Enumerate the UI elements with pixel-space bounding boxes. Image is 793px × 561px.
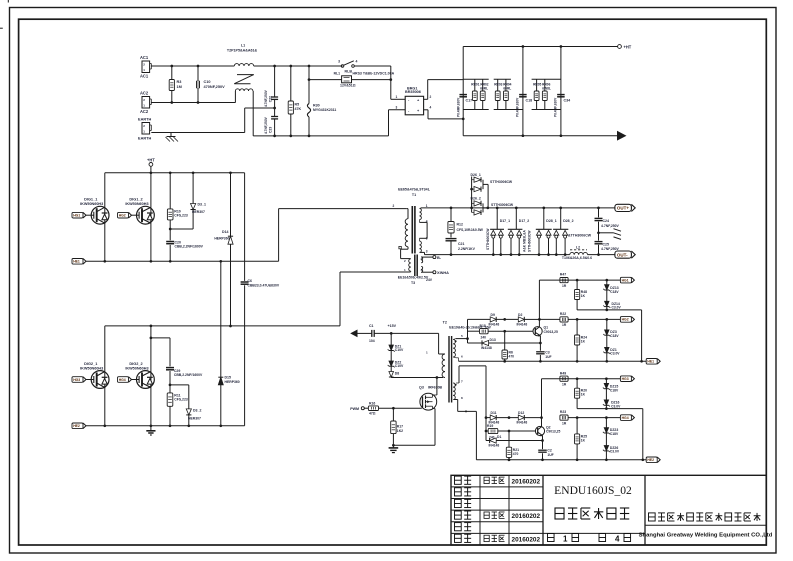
- svg-text:L1: L1: [241, 44, 245, 48]
- svg-text:D14: D14: [222, 230, 228, 234]
- svg-text:3: 3: [396, 105, 398, 109]
- connector HE2: [72, 423, 245, 429]
- svg-text:4.7NF,250V: 4.7NF,250V: [264, 89, 268, 107]
- wire HT top rail: [463, 46, 617, 48]
- capacitor C21: [446, 233, 476, 255]
- svg-text:R22: R22: [560, 312, 566, 316]
- diode D3_1: [170, 173, 206, 229]
- svg-text:D17_2: D17_2: [519, 219, 529, 223]
- svg-text:CBB,2.2NF/1600V: CBB,2.2NF/1600V: [175, 245, 204, 249]
- svg-text:47Ω: 47Ω: [369, 411, 376, 415]
- resistor pair RR01 RR02: [463, 79, 489, 109]
- svg-text:DIG1_2: DIG1_2: [129, 198, 142, 202]
- diode D11: [486, 411, 518, 424]
- wire AC2 to choke: [151, 102, 235, 104]
- svg-text:+HT: +HT: [147, 158, 155, 163]
- wire DIG1_2 emitter: [150, 223, 152, 261]
- diode group D27_2: [508, 208, 529, 255]
- transformer T3 label: [398, 275, 429, 284]
- wire Q3 drain: [433, 378, 437, 396]
- svg-text:STTH3006CW: STTH3006CW: [491, 203, 514, 207]
- diode pair D26_2: [471, 197, 514, 216]
- svg-text:470: 470: [513, 452, 519, 456]
- svg-text:T106&26A,6.5&0.6: T106&26A,6.5&0.6: [562, 256, 592, 260]
- svg-text:1K2: 1K2: [397, 429, 403, 433]
- svg-text:R19: R19: [487, 424, 493, 428]
- svg-text:C10V: C10V: [395, 364, 404, 368]
- svg-text:AC2: AC2: [140, 91, 149, 96]
- svg-text:47K: 47K: [295, 107, 302, 111]
- wire AC1 to choke: [151, 65, 234, 67]
- wire DIG1_1 collector: [104, 173, 106, 208]
- svg-text:DIG1_1: DIG1_1: [84, 198, 98, 202]
- transformer T1 label: [398, 188, 431, 197]
- resistor R49: [560, 371, 568, 386]
- svg-text:IKW50N60H3: IKW50N60H3: [80, 202, 103, 206]
- resistor R48: [575, 280, 588, 310]
- svg-text:HG2: HG2: [119, 214, 126, 218]
- resistor pair RR05 RR06: [532, 79, 561, 109]
- wire Q1 emitter: [539, 336, 541, 343]
- wire primary riser: [279, 209, 407, 262]
- wire bottom rail left: [253, 135, 388, 137]
- svg-text:C18V: C18V: [610, 389, 619, 393]
- wire DIG2_1 emitter: [104, 387, 106, 425]
- svg-text:470: 470: [509, 355, 515, 359]
- wire ch2 left vertical: [485, 416, 488, 440]
- svg-text:+15V: +15V: [388, 324, 397, 328]
- resistor R12: [448, 208, 484, 233]
- corner mark: [7, 0, 9, 3]
- wire ch1 rail: [456, 358, 646, 363]
- zener DZ3: [603, 319, 619, 338]
- capacitor C24: [595, 208, 620, 234]
- svg-text:1R: 1R: [562, 284, 567, 288]
- resistor R24: [575, 319, 588, 361]
- svg-text:C3.0V: C3.0V: [611, 404, 621, 408]
- wire ch1 left vertical: [467, 319, 469, 343]
- capacitor C25: [595, 233, 620, 255]
- svg-text:1: 1: [143, 103, 145, 107]
- capacitor C18: [516, 95, 533, 117]
- svg-text:R12: R12: [457, 223, 463, 227]
- wire bridge pin2: [424, 80, 464, 100]
- svg-text:4.7NF,250V: 4.7NF,250V: [601, 224, 620, 228]
- svg-text:C18V: C18V: [610, 290, 619, 294]
- svg-text:T2P1P5&A&A61&: T2P1P5&A&A61&: [227, 49, 258, 53]
- resistor R3: [169, 65, 182, 104]
- wire bridge pin4: [424, 105, 465, 120]
- svg-text:AC1: AC1: [140, 55, 149, 60]
- svg-text:RLB: RLB: [345, 70, 353, 74]
- wire ch1 row2 right: [568, 318, 620, 321]
- diode D12: [517, 411, 542, 424]
- svg-text:12V&51Ω: 12V&51Ω: [340, 84, 356, 88]
- svg-text:HG2: HG2: [622, 318, 629, 322]
- capacitor C10: [197, 65, 225, 104]
- capacitor C17: [457, 95, 473, 117]
- svg-text:1: 1: [143, 68, 145, 72]
- svg-text:D26_1: D26_1: [471, 173, 481, 177]
- svg-text:1UF: 1UF: [547, 453, 553, 457]
- svg-text:Shanghai Greatway Welding Equi: Shanghai Greatway Welding Equipment CO.,…: [639, 533, 773, 539]
- svg-text:C24: C24: [603, 219, 609, 223]
- resistor R19: [486, 424, 536, 439]
- svg-text:D8: D8: [395, 372, 399, 376]
- connector flag HE1: [646, 359, 657, 365]
- svg-text:P0.4MF,630V: P0.4MF,630V: [516, 97, 520, 117]
- capacitor C1: [358, 324, 392, 343]
- svg-text:L2: L2: [576, 246, 580, 250]
- wire snubber left vertical: [462, 47, 464, 136]
- transformer T1 core: [412, 206, 415, 254]
- relay contact RLB: [338, 60, 391, 74]
- svg-text:Q3: Q3: [419, 385, 424, 389]
- svg-text:1R: 1R: [562, 382, 567, 386]
- svg-text:IKW50N60H3: IKW50N60H3: [125, 367, 148, 371]
- zener DZ13: [603, 280, 619, 294]
- transistor DIG1_1: [72, 198, 109, 224]
- svg-text:6: 6: [461, 354, 463, 358]
- capacitor C34: [554, 95, 571, 117]
- arrow output: [617, 131, 627, 141]
- resistor R18: [468, 324, 534, 340]
- svg-text:C10: C10: [204, 80, 211, 84]
- wire ch1 row1: [539, 279, 620, 282]
- svg-text:PWM: PWM: [350, 407, 359, 411]
- svg-text:4: 4: [615, 535, 620, 544]
- capacitor C2: [538, 441, 553, 460]
- svg-text:C18: C18: [526, 99, 533, 103]
- svg-text:4: 4: [356, 60, 358, 64]
- svg-text:C25: C25: [603, 243, 609, 247]
- resistor R21: [506, 431, 519, 461]
- svg-text:R3: R3: [177, 80, 182, 84]
- wire switch drop: [391, 66, 405, 99]
- ground earth symbol: [166, 133, 179, 142]
- wire Q2 collector: [540, 379, 543, 427]
- svg-text:B-: B-: [437, 256, 442, 260]
- wire ch1 rowB: [577, 309, 642, 362]
- svg-text:D28_2: D28_2: [563, 219, 573, 223]
- svg-text:1K: 1K: [581, 294, 586, 298]
- resistor R20: [575, 379, 588, 409]
- title row label 审核: [455, 511, 472, 519]
- svg-text:2: 2: [143, 63, 145, 67]
- resistor R17: [391, 408, 403, 445]
- resistor R6: [502, 331, 514, 362]
- title drawing name 主回路原理图: [555, 508, 629, 519]
- svg-text:C23: C23: [269, 127, 273, 133]
- svg-text:HG3: HG3: [73, 378, 80, 382]
- svg-text:STTH3006CW: STTH3006CW: [490, 180, 513, 184]
- wire top rail HT: [105, 171, 245, 174]
- svg-text:&TTH3006CW: &TTH3006CW: [568, 234, 592, 238]
- svg-text:A&K MB3L&A: A&K MB3L&A: [523, 229, 527, 252]
- svg-text:C9013,25: C9013,25: [544, 330, 559, 334]
- capacitor C3: [536, 343, 551, 361]
- svg-text:BR35006: BR35006: [405, 90, 421, 94]
- connector flag HE2: [646, 457, 657, 463]
- zener DZ1: [388, 333, 404, 352]
- svg-text:R23: R23: [560, 410, 566, 414]
- svg-text:C22: C22: [269, 96, 273, 102]
- svg-text:AC1: AC1: [140, 74, 149, 79]
- svg-text:C9013,25: C9013,25: [546, 430, 561, 434]
- resistor R22: [539, 312, 568, 327]
- svg-text:HG4: HG4: [119, 378, 126, 382]
- svg-text:DIG2_2: DIG2_2: [129, 362, 142, 366]
- resistor R25: [575, 418, 588, 460]
- svg-text:3: 3: [338, 60, 340, 64]
- transistor Q3: [419, 385, 443, 410]
- zener DZ4: [603, 335, 620, 361]
- wire bridge pin3: [389, 105, 406, 136]
- svg-text:D3_1: D3_1: [198, 203, 206, 207]
- diode D14: [214, 173, 233, 328]
- transistor DIG1_2: [118, 198, 155, 224]
- svg-text:1: 1: [426, 351, 428, 355]
- svg-text:240: 240: [481, 336, 487, 340]
- svg-text:HERP360: HERP360: [214, 237, 229, 241]
- svg-text:104: 104: [369, 339, 375, 343]
- zener DZ23: [603, 418, 619, 436]
- svg-text:CFS,10RJ&0.5W: CFS,10RJ&0.5W: [457, 228, 484, 232]
- connector flag HG4: [620, 415, 631, 421]
- svg-text:4: 4: [430, 105, 432, 109]
- connector OUT+: [615, 204, 635, 211]
- svg-text:RL1: RL1: [334, 72, 341, 76]
- title page 第 1 页 共 4 页: [548, 534, 631, 544]
- svg-text:HE1: HE1: [73, 260, 80, 264]
- svg-text:D28_1: D28_1: [546, 219, 556, 223]
- svg-text:R16: R16: [369, 401, 375, 405]
- svg-text:C2: C2: [547, 449, 551, 453]
- wire ch2 rowB: [577, 407, 643, 460]
- diode D15: [218, 261, 239, 427]
- svg-text:R18: R18: [480, 324, 486, 328]
- resistor pair RR03 RR04: [494, 79, 523, 109]
- arrow 15V input: [350, 330, 357, 338]
- wire T2 pin7 to ch2: [456, 366, 486, 418]
- svg-text:-: -: [408, 109, 410, 113]
- svg-text:C1: C1: [369, 324, 374, 328]
- connector HE1: [72, 259, 279, 265]
- svg-text:R49: R49: [560, 371, 566, 375]
- svg-text:HER307: HER307: [192, 210, 205, 214]
- svg-text:60RL: 60RL: [480, 87, 488, 91]
- svg-text:CFS,223: CFS,223: [174, 214, 188, 218]
- svg-text:D17_1: D17_1: [500, 219, 510, 223]
- svg-text:1R: 1R: [562, 421, 567, 425]
- svg-text:T2: T2: [443, 320, 447, 324]
- svg-text:D2: D2: [518, 313, 522, 317]
- svg-text:60RL: 60RL: [503, 87, 511, 91]
- connector flag HG1: [620, 277, 631, 283]
- svg-text:8: 8: [461, 396, 463, 400]
- wire EARTH: [151, 132, 244, 134]
- title company 上海广为焊接设备有限公司: [649, 513, 761, 521]
- bridge rectifier BRG1: [405, 86, 424, 115]
- svg-text:D12: D12: [518, 411, 524, 415]
- svg-text:T3: T3: [411, 281, 415, 285]
- wire ch1 row2 left: [468, 318, 491, 320]
- svg-text:2.2NF/1KV: 2.2NF/1KV: [458, 247, 476, 251]
- svg-text:2: 2: [143, 124, 145, 128]
- svg-text:4.7NF,250V: 4.7NF,250V: [601, 247, 620, 251]
- title row label 校对: [455, 499, 472, 507]
- svg-text:C21: C21: [458, 242, 464, 246]
- resistor R16: [368, 401, 421, 415]
- choke L1: [227, 44, 258, 136]
- svg-text:IN4148: IN4148: [489, 444, 500, 448]
- wire secondary top rail: [421, 207, 615, 210]
- diode group D28_2: [553, 208, 574, 255]
- capacitor C6: [241, 173, 280, 426]
- wire lower collector rail: [105, 325, 340, 328]
- chassis ground: [599, 229, 622, 240]
- wire T2 pin8 to rail: [454, 400, 476, 460]
- svg-text:CBB,2.2NF/1600V: CBB,2.2NF/1600V: [174, 373, 203, 377]
- svg-text:1K: 1K: [581, 393, 586, 397]
- diode D9: [489, 313, 519, 326]
- svg-text:C34: C34: [564, 99, 571, 103]
- corner mark left: [0, 27, 3, 29]
- svg-text:OUT+: OUT+: [617, 206, 629, 211]
- connector AC2: [140, 91, 151, 115]
- zener DZ16: [603, 389, 621, 409]
- net +15V: [388, 324, 439, 335]
- svg-text:7: 7: [461, 379, 463, 383]
- svg-text:4.7NF,250V: 4.7NF,250V: [264, 116, 268, 134]
- svg-text:EARTH: EARTH: [138, 118, 151, 122]
- svg-text:HE2: HE2: [647, 458, 654, 462]
- resistor R47: [560, 273, 568, 288]
- transformer T2 primary: [426, 351, 445, 379]
- svg-text:C3.0V: C3.0V: [610, 450, 620, 454]
- inductor L2: [562, 246, 592, 261]
- diode group D27_1: [490, 208, 510, 255]
- diode D2: [517, 313, 540, 326]
- diode D13: [468, 338, 542, 350]
- transistor DIG2_1: [72, 362, 109, 388]
- svg-text:470NF,250V: 470NF,250V: [204, 85, 226, 89]
- svg-text:+HT: +HT: [624, 44, 632, 49]
- connector EARTH: [138, 118, 151, 141]
- varistor RV1: [307, 65, 336, 138]
- svg-text:CFS,223: CFS,223: [174, 397, 188, 401]
- zener DZ26: [603, 433, 620, 460]
- terminal +HT right: [618, 44, 632, 49]
- transformer T3 core: [415, 255, 417, 277]
- svg-text:24V: 24V: [426, 278, 433, 282]
- svg-text:6W8L: 6W8L: [542, 87, 551, 91]
- resistor R23: [560, 410, 568, 425]
- transformer T2 primary feed: [439, 333, 445, 354]
- svg-text:D3_2: D3_2: [193, 409, 201, 413]
- net flag B-: [426, 256, 442, 260]
- svg-text:HE2: HE2: [73, 424, 80, 428]
- svg-text:IN4148: IN4148: [517, 421, 528, 425]
- title name 李述辉: [484, 477, 505, 483]
- svg-text:C3.0V: C3.0V: [610, 352, 620, 356]
- svg-text:D1: D1: [497, 435, 501, 439]
- svg-text:STTH6003CW: STTH6003CW: [528, 230, 532, 252]
- svg-text:20160202: 20160202: [512, 478, 541, 485]
- svg-text:XINHA: XINHA: [437, 271, 449, 275]
- transistor DIG2_2: [118, 362, 155, 388]
- svg-text:DIG2_1: DIG2_1: [84, 362, 98, 366]
- svg-text:1R: 1R: [562, 323, 567, 327]
- svg-text:3: 3: [426, 250, 428, 254]
- diode D3_2: [170, 385, 201, 426]
- zener DZ2: [388, 351, 404, 369]
- svg-text:IKW50N60H3: IKW50N60H3: [80, 367, 103, 371]
- capacitor C22: [264, 65, 278, 110]
- wire snubber right vertical C34: [560, 45, 563, 137]
- svg-text:ENDU160JS_02: ENDU160JS_02: [554, 484, 632, 497]
- svg-text:C3.0V: C3.0V: [612, 306, 622, 310]
- wire DIG1_1 emitter: [104, 223, 106, 261]
- resistor R10: [167, 173, 187, 231]
- title name 徐德进: [484, 535, 505, 541]
- svg-text:CBB23,0.47U&630V: CBB23,0.47U&630V: [248, 284, 280, 288]
- title row label 设计: [455, 476, 472, 484]
- svg-text:C18V: C18V: [610, 334, 619, 338]
- svg-text:C17: C17: [466, 99, 473, 103]
- title name 刘纪周: [484, 512, 505, 518]
- zener DZ15: [603, 379, 619, 393]
- transformer T3 primary: [404, 259, 411, 272]
- ground symbol: [146, 426, 155, 435]
- svg-text:20160202: 20160202: [512, 513, 541, 520]
- svg-text:-: -: [408, 99, 410, 103]
- transistor Q1: [533, 326, 558, 337]
- svg-text:OUT-: OUT-: [617, 252, 628, 257]
- wire DIG2_1 collector: [104, 326, 106, 372]
- svg-text:HG1: HG1: [73, 214, 80, 218]
- wire DIG1_2 collector: [150, 173, 152, 208]
- wire DIG2_2 emitter: [150, 387, 152, 425]
- svg-text:1UF: 1UF: [545, 355, 551, 359]
- svg-text:2: 2: [393, 204, 395, 208]
- wire Q3 source: [433, 409, 436, 446]
- relay coil RL1: [309, 72, 395, 88]
- svg-text:HG3: HG3: [622, 377, 629, 381]
- connector AC1: [140, 55, 151, 79]
- wire Q2 emitter: [542, 436, 544, 441]
- svg-text:C6: C6: [248, 279, 253, 283]
- svg-text:D9: D9: [491, 313, 495, 317]
- svg-text:HERP360: HERP360: [225, 380, 240, 384]
- svg-text:R47: R47: [560, 273, 566, 277]
- connector OUT-: [615, 251, 635, 258]
- svg-text:EE16&50b;49/2.5V: EE16&50b;49/2.5V: [398, 275, 429, 279]
- capacitor C29: [150, 337, 203, 387]
- title block grid: [451, 475, 766, 545]
- wire Q1 collector: [538, 280, 541, 327]
- svg-text:1: 1: [563, 535, 568, 544]
- wire snubber bottom rail: [463, 135, 617, 137]
- wire DIG2_2 collector: [150, 326, 152, 372]
- svg-text:AC2: AC2: [140, 109, 149, 114]
- svg-text:IKW50N60H3: IKW50N60H3: [125, 202, 148, 206]
- svg-text:5: 5: [461, 334, 463, 338]
- svg-text:IN4148: IN4148: [481, 346, 492, 350]
- diode pair D26_1: [470, 173, 513, 208]
- wire ch2 rail: [476, 458, 646, 461]
- svg-text:EE65&47b&,9T34L: EE65&47b&,9T34L: [398, 188, 431, 192]
